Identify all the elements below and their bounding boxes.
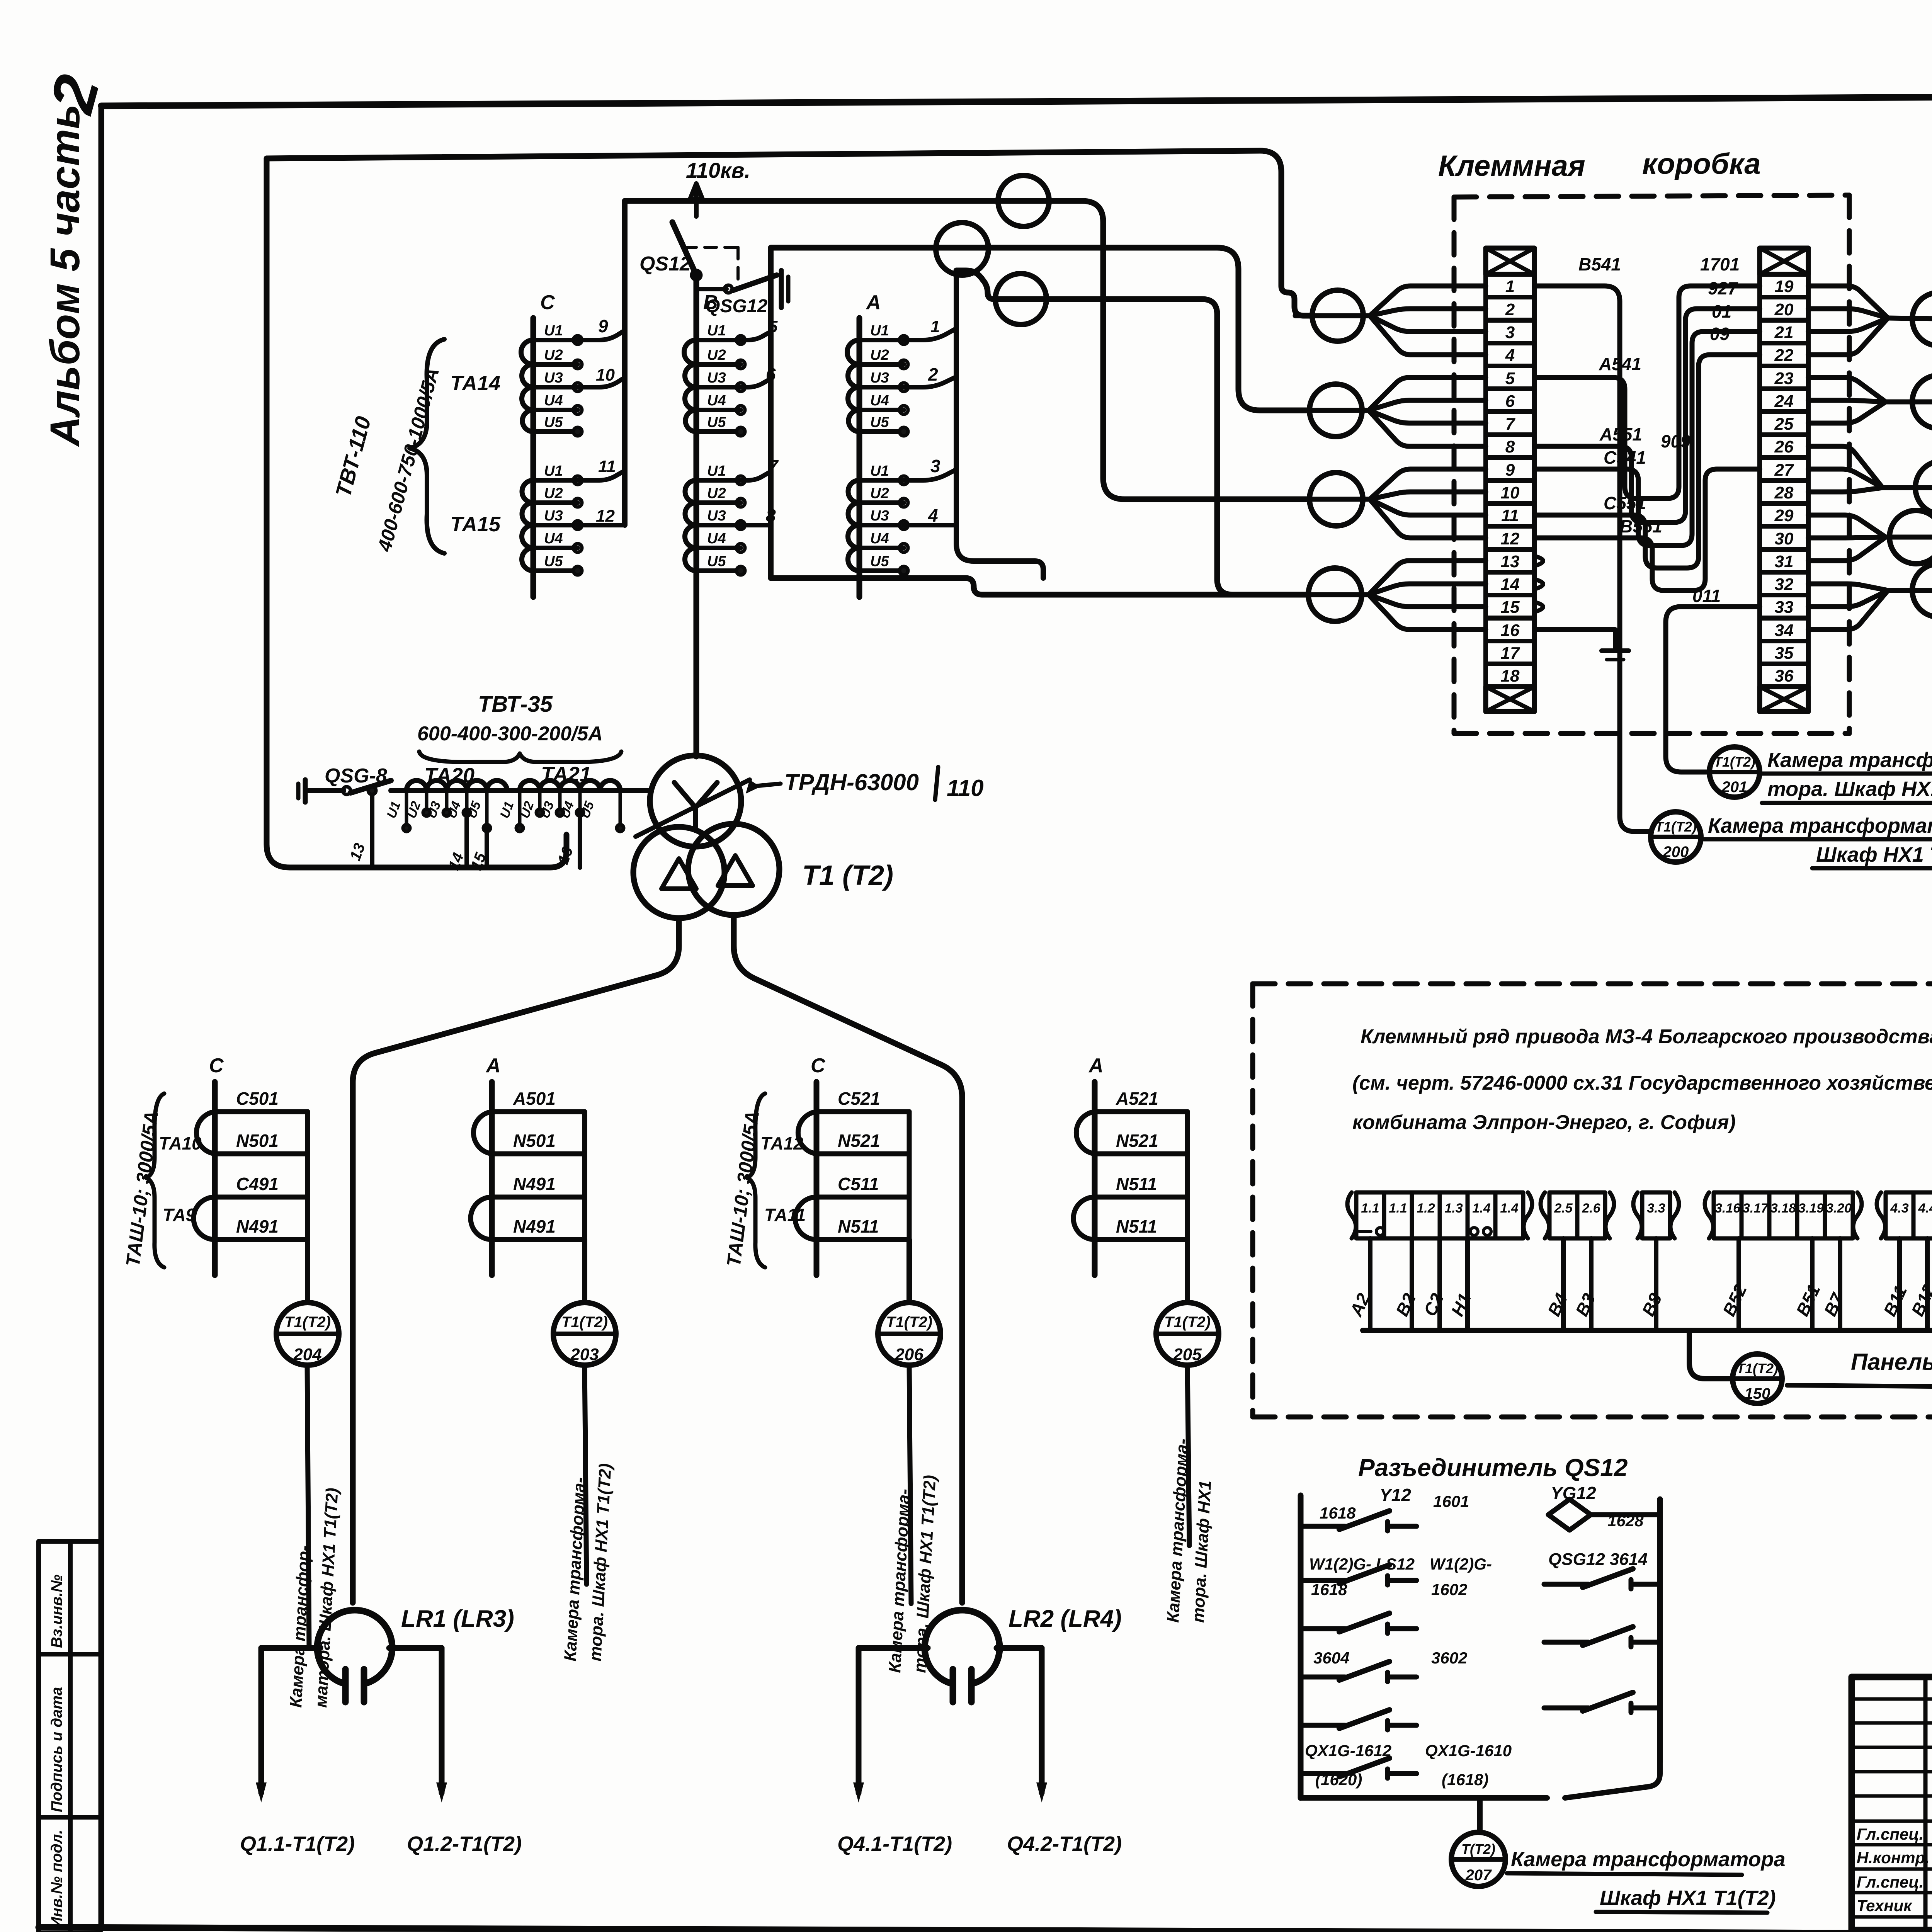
col top — [39, 1539, 101, 1544]
terminal 26 of right strip — [1760, 435, 1808, 457]
svg-text:2: 2 — [1505, 300, 1515, 319]
winding wire U2 of TA18-19A0 — [859, 362, 904, 367]
terminal 7 of left strip — [1486, 412, 1534, 435]
winding arcs TA18-19A0 — [847, 340, 859, 432]
wire collector C — [622, 201, 628, 525]
svg-text:ТРДН-63000: ТРДН-63000 — [784, 769, 919, 795]
terminal 9 of left strip — [1486, 457, 1534, 480]
svg-text:011: 011 — [1692, 586, 1721, 606]
110kV line arrow — [690, 184, 702, 216]
winding arcs TA10-9 — [194, 1112, 215, 1240]
svg-text:C: C — [540, 291, 555, 314]
svg-text:6: 6 — [1505, 392, 1515, 411]
svg-text:110кв.: 110кв. — [686, 158, 750, 182]
svg-text:(1620): (1620) — [1315, 1770, 1362, 1789]
svg-text:N521: N521 — [1116, 1131, 1158, 1151]
svg-text:8: 8 — [1505, 437, 1515, 456]
svg-text:U3: U3 — [544, 508, 563, 524]
cable circle 204 — [305, 1240, 310, 1302]
cable marker B — [936, 223, 988, 275]
terminal 30 of right strip — [1760, 526, 1808, 549]
contact QS12 aux row1 — [1301, 1524, 1345, 1529]
svg-text:1701: 1701 — [1700, 254, 1740, 274]
svg-text:U3: U3 — [870, 508, 889, 524]
wire 12 to collector — [578, 523, 625, 527]
svg-text:14: 14 — [1501, 575, 1520, 594]
svg-text:927: 927 — [1708, 278, 1738, 298]
svg-text:Y12: Y12 — [1379, 1485, 1411, 1505]
dashed box right — [1847, 195, 1852, 733]
CT group TA-A2 phase A — [1092, 1082, 1098, 1275]
drop wire В51 — [1810, 1238, 1815, 1330]
drop wire Н1 — [1465, 1238, 1470, 1330]
winding wire U3 of TA18-19A0 — [859, 385, 904, 389]
svg-text:тора. Шкаф НХ1 Т1(Т2): тора. Шкаф НХ1 Т1(Т2) — [1767, 777, 1932, 801]
contact QSG12 aux 4420 — [1544, 1706, 1588, 1711]
drop wire В4 — [1561, 1238, 1566, 1330]
right terminal line TA-A2 — [1185, 1112, 1190, 1240]
border frame top — [101, 94, 1932, 106]
drop wire А2 — [1368, 1238, 1372, 1330]
svg-text:U5: U5 — [870, 553, 889, 570]
CT group TA-A1 phase A — [489, 1082, 495, 1275]
winding arcs TA12-11 — [795, 1112, 816, 1240]
cable circle 205 — [1185, 1240, 1190, 1302]
cable transit circle P1 — [1912, 293, 1932, 346]
svg-text:1602: 1602 — [1431, 1580, 1467, 1599]
svg-text:Т1(Т2): Т1(Т2) — [284, 1314, 331, 1331]
wire 4 to collector — [904, 523, 956, 527]
svg-text:QX1G-1612: QX1G-1612 — [1305, 1742, 1391, 1760]
cable transit circle P5 — [1912, 564, 1932, 617]
svg-text:2: 2 — [928, 364, 938, 384]
svg-text:А521: А521 — [1116, 1088, 1158, 1109]
drop wire В52 — [1736, 1238, 1741, 1330]
svg-text:Т1(Т2): Т1(Т2) — [886, 1314, 932, 1331]
svg-text:Гл.спец.: Гл.спец. — [1857, 1873, 1923, 1891]
winding wire U4 of TA18-19A0 — [859, 408, 904, 412]
svg-text:N491: N491 — [513, 1174, 556, 1194]
svg-text:Т1(Т2): Т1(Т2) — [1655, 819, 1697, 835]
winding wire U1 of TA18-19A0 — [859, 338, 904, 342]
terminal strip right strip — [1760, 248, 1808, 274]
svg-text:N511: N511 — [1116, 1174, 1157, 1194]
fan wires P1 — [1808, 286, 1888, 318]
terminal 20 of right strip — [1760, 297, 1808, 320]
svg-text:Вз.инв.№: Вз.инв.№ — [48, 1575, 65, 1648]
wire collector B — [768, 248, 774, 525]
bulg box left — [1250, 984, 1255, 1417]
wire jumper B551-909 — [1534, 469, 1760, 590]
svg-text:U5: U5 — [870, 414, 889, 430]
contact QS12 aux row2 — [1301, 1578, 1345, 1583]
terminal 34 of right strip — [1760, 618, 1808, 641]
svg-text:В541: В541 — [1578, 254, 1621, 274]
svg-text:10: 10 — [1501, 483, 1520, 502]
col left — [36, 1541, 41, 1932]
circle 201 — [1709, 747, 1760, 797]
link symbols 1.1 1.4 — [1359, 1228, 1384, 1235]
wire 3 to collector — [904, 469, 956, 480]
terminal 33 of right strip — [1760, 595, 1808, 618]
wire collector A — [954, 270, 959, 525]
wire qs12 bottom — [1301, 1795, 1547, 1801]
svg-text:Т1(Т2): Т1(Т2) — [561, 1314, 608, 1331]
cable transit circle K4 — [1308, 568, 1362, 621]
svg-text:(см. черт. 57246-0000 сх.31 Г: (см. черт. 57246-0000 сх.31 Государствен… — [1352, 1072, 1932, 1094]
dashed box top — [1454, 195, 1849, 197]
windings TA20 TA21 arcs — [406, 781, 620, 791]
svg-text:34: 34 — [1775, 621, 1794, 640]
svg-text:U2: U2 — [870, 485, 889, 502]
terminal row bus — [1363, 1328, 1932, 1333]
svg-text:С551: С551 — [1604, 493, 1646, 513]
svg-text:16: 16 — [1501, 621, 1520, 640]
fan wires K2 — [1369, 378, 1486, 410]
reactor LR2 — [925, 1610, 1000, 1684]
contact QS12 aux row5 — [1301, 1723, 1345, 1728]
wire wire C group run — [625, 201, 1309, 499]
cable transit circle K2 — [1310, 384, 1362, 437]
svg-text:A: A — [866, 291, 881, 314]
wire LV2 lead — [734, 915, 962, 1603]
contact QS12 aux row6 — [1301, 1771, 1345, 1776]
QS12 link dash h — [685, 246, 738, 249]
svg-text:U1: U1 — [544, 463, 563, 479]
wire LV1 lead — [353, 918, 679, 1603]
svg-text:35: 35 — [1775, 644, 1794, 663]
wire 7 to collector — [741, 471, 771, 480]
terminal 3 of left strip — [1486, 320, 1534, 343]
svg-text:7: 7 — [1505, 415, 1516, 434]
terminal 22 of right strip — [1760, 343, 1808, 366]
winding wire А521 — [1095, 1109, 1187, 1114]
svg-text:U4: U4 — [544, 531, 563, 547]
fan wires K3 — [1370, 469, 1486, 499]
terminal 13 of left strip — [1486, 549, 1534, 572]
wire QSG12 lead — [696, 287, 726, 291]
svg-text:1628: 1628 — [1607, 1512, 1644, 1530]
wire wire lower run to C4 — [771, 578, 1308, 595]
svg-text:U4: U4 — [870, 531, 889, 547]
svg-text:23: 23 — [1774, 369, 1794, 388]
wire return wire left — [267, 158, 566, 867]
svg-text:U5: U5 — [707, 553, 726, 570]
svg-text:27: 27 — [1774, 461, 1794, 480]
cable transit circle P2 — [1912, 375, 1932, 429]
bulg box bottom full — [1253, 1415, 1932, 1420]
terminal group G1 — [1347, 1192, 1356, 1238]
ground symbol at terminal 16 — [1534, 629, 1615, 651]
svg-text:36: 36 — [1775, 667, 1794, 685]
terminal 24 of right strip — [1760, 389, 1808, 412]
svg-text:U3: U3 — [707, 370, 726, 386]
wire B phase main upper — [694, 275, 699, 318]
drop wire В8 — [1654, 1238, 1658, 1330]
cable marker A — [998, 175, 1049, 226]
terminal 25 of right strip — [1760, 412, 1808, 435]
svg-text:ТА10: ТА10 — [159, 1133, 202, 1153]
svg-text:Клеммный ряд привода МЗ-4 Бо: Клеммный ряд привода МЗ-4 Болгарского пр… — [1361, 1026, 1932, 1048]
contact QS12 aux row4 — [1301, 1675, 1345, 1680]
svg-text:Шкаф НХ1 Т1(Т2): Шкаф НХ1 Т1(Т2) — [1600, 1886, 1776, 1910]
svg-text:Инв.№ подл.: Инв.№ подл. — [48, 1830, 65, 1928]
wire collector A lower — [956, 525, 1043, 578]
fan wires K1 — [1370, 286, 1486, 316]
svg-text:QS12: QS12 — [639, 253, 691, 275]
terminal 28 of right strip — [1760, 481, 1808, 503]
circle 200 — [1651, 812, 1701, 862]
svg-text:19: 19 — [1775, 277, 1794, 296]
wire wire to panel P14 — [1689, 1330, 1732, 1379]
svg-text:25: 25 — [1774, 415, 1794, 434]
wire 10 to collector — [578, 378, 625, 387]
wire B phase main lower — [694, 597, 699, 757]
svg-text:13: 13 — [1501, 552, 1520, 571]
svg-text:21: 21 — [1774, 323, 1794, 342]
svg-text:Камера трансформатора: Камера трансформатора — [1708, 814, 1932, 837]
col mid — [68, 1541, 73, 1932]
wire wire A group run — [956, 270, 1308, 595]
svg-text:Т1 (Т2): Т1 (Т2) — [802, 860, 893, 891]
wire collector B lower — [768, 525, 774, 578]
svg-text:A: A — [1088, 1054, 1104, 1077]
CT group TA10-9 phase C — [212, 1082, 218, 1275]
circle 150 — [1733, 1354, 1782, 1403]
svg-text:U5: U5 — [544, 553, 563, 570]
svg-text:30: 30 — [1775, 529, 1794, 548]
right terminal line TA12-11 — [907, 1112, 912, 1240]
svg-text:22: 22 — [1774, 346, 1794, 365]
svg-text:4.4: 4.4 — [1918, 1201, 1932, 1216]
svg-text:3602: 3602 — [1431, 1649, 1467, 1667]
svg-text:С541: С541 — [1604, 447, 1646, 468]
svg-text:1.4: 1.4 — [1500, 1201, 1518, 1216]
wire jumper C541-01 — [1534, 332, 1760, 546]
winding wire U5 of TA18-19A1 — [859, 568, 904, 573]
contact QSG12 aux 4250 — [1544, 1640, 1588, 1645]
svg-text:15: 15 — [1501, 598, 1520, 617]
winding wire U2 of TA14-15C1 — [533, 500, 578, 505]
svg-text:3: 3 — [1505, 323, 1515, 342]
svg-text:4: 4 — [1505, 346, 1515, 365]
brace TVT-35 — [419, 752, 621, 762]
svg-text:С511: С511 — [838, 1174, 879, 1194]
stub terminal 13 — [1534, 556, 1543, 566]
svg-text:600-400-300-200/5А: 600-400-300-200/5А — [417, 723, 603, 745]
col div2 — [39, 1815, 101, 1820]
CT group TA14-15C phase C bus — [531, 318, 536, 597]
svg-text:4: 4 — [928, 505, 938, 526]
svg-text:1.2: 1.2 — [1417, 1201, 1435, 1216]
terminal 6 of left strip — [1486, 389, 1534, 412]
winding wire U5 of TA14-15C0 — [533, 429, 578, 434]
svg-text:09: 09 — [1710, 324, 1730, 344]
svg-text:207: 207 — [1465, 1867, 1492, 1884]
tap connection verticals to return wire — [370, 791, 374, 867]
winding wire U1 of TA16-17B1 — [696, 478, 741, 483]
svg-text:Клеммная: Клеммная — [1438, 150, 1585, 182]
terminal 4 of left strip — [1486, 343, 1534, 366]
wire jumper A541-1701 — [1534, 286, 1760, 498]
svg-text:ТА9: ТА9 — [163, 1205, 196, 1225]
svg-text:29: 29 — [1774, 506, 1794, 525]
svg-text:U2: U2 — [707, 347, 726, 363]
taps of TA20/TA21 — [405, 791, 408, 829]
svg-text:U5: U5 — [544, 414, 563, 430]
svg-text:3.18: 3.18 — [1770, 1201, 1796, 1216]
svg-text:Камера трансформа-: Камера трансформа- — [1767, 748, 1932, 772]
svg-text:2.5: 2.5 — [1554, 1201, 1573, 1216]
svg-text:С521: С521 — [838, 1088, 880, 1109]
terminal 19 of right strip — [1760, 274, 1808, 297]
brace TBT-110 — [410, 339, 444, 553]
T1 LV2 circle — [688, 824, 779, 915]
fan wires P3 — [1808, 446, 1883, 488]
svg-text:1618: 1618 — [1311, 1580, 1347, 1599]
winding wire А501 — [492, 1109, 585, 1114]
svg-text:U1: U1 — [707, 323, 726, 339]
cable transit circle K1 — [1312, 290, 1363, 341]
svg-text:Q1.1-Т1(Т2): Q1.1-Т1(Т2) — [240, 1832, 355, 1855]
svg-text:Т1(Т2): Т1(Т2) — [1714, 754, 1755, 770]
svg-text:26: 26 — [1774, 437, 1794, 456]
svg-text:20: 20 — [1774, 300, 1794, 319]
wire wire top loop — [267, 151, 1313, 316]
winding wire U4 of TA18-19A1 — [859, 546, 904, 550]
winding arcs TA-A1 — [471, 1112, 492, 1240]
CT group TA12-11 phase C — [814, 1082, 820, 1275]
svg-text:коробка: коробка — [1642, 148, 1761, 180]
winding wire U4 of TA14-15C1 — [533, 546, 578, 550]
svg-text:QX1G-1610: QX1G-1610 — [1425, 1742, 1512, 1760]
terminal 8 of left strip — [1486, 435, 1534, 457]
terminal 14 of left strip — [1486, 572, 1534, 595]
winding wire U3 of TA14-15C0 — [533, 385, 578, 389]
diamond contact YG12 — [1548, 1499, 1591, 1530]
svg-text:Гл.спец.: Гл.спец. — [1857, 1825, 1923, 1843]
svg-text:С491: С491 — [236, 1174, 279, 1194]
col bottom — [39, 1931, 101, 1932]
fan wires K4 — [1369, 561, 1486, 595]
svg-text:комбината Элпрон-Энерго, г.: комбината Элпрон-Энерго, г. София) — [1352, 1111, 1736, 1134]
terminal 35 of right strip — [1760, 641, 1808, 664]
winding wire N491 — [215, 1237, 308, 1242]
svg-text:5: 5 — [1505, 369, 1515, 388]
winding wire С501 — [215, 1109, 308, 1114]
terminal 16 of left strip — [1486, 618, 1534, 641]
winding wire С511 — [816, 1195, 909, 1200]
winding wire U2 of TA18-19A1 — [859, 500, 904, 505]
drop wire В2 — [1410, 1238, 1414, 1330]
svg-text:N501: N501 — [513, 1131, 556, 1151]
bulg box top — [1253, 981, 1932, 986]
svg-text:3.19: 3.19 — [1798, 1201, 1824, 1216]
svg-text:LR1 (LR3): LR1 (LR3) — [401, 1605, 514, 1632]
winding wire U2 of TA16-17B0 — [696, 362, 741, 367]
svg-text:12: 12 — [1501, 529, 1520, 548]
winding wire U4 of TA16-17B0 — [696, 408, 741, 412]
svg-text:N491: N491 — [236, 1216, 279, 1236]
winding wire U3 of TA16-17B1 — [696, 523, 741, 527]
svg-text:U1: U1 — [544, 323, 563, 339]
winding wire U5 of TA18-19A0 — [859, 429, 904, 434]
brace right TASH — [747, 1094, 765, 1267]
svg-text:205: 205 — [1173, 1345, 1202, 1364]
svg-text:ТА11: ТА11 — [764, 1205, 806, 1225]
svg-text:28: 28 — [1774, 483, 1794, 502]
svg-text:11: 11 — [598, 457, 616, 476]
terminal 1 of left strip — [1486, 274, 1534, 297]
svg-text:W1(2)G-: W1(2)G- — [1430, 1555, 1492, 1573]
svg-text:24: 24 — [1774, 392, 1794, 411]
wire 5 to collector — [741, 332, 771, 340]
signature grid — [1923, 1677, 1928, 1930]
fan wires P2 — [1808, 378, 1886, 402]
svg-text:10: 10 — [596, 366, 615, 384]
svg-text:3604: 3604 — [1313, 1649, 1349, 1667]
col div1 — [39, 1652, 101, 1656]
winding wire U3 of TA14-15C1 — [533, 523, 578, 527]
svg-text:В551: В551 — [1620, 516, 1662, 536]
winding wire U1 of TA18-19A1 — [859, 478, 904, 483]
wire 9 to collector — [578, 330, 625, 340]
svg-text:Q4.2-Т1(Т2): Q4.2-Т1(Т2) — [1007, 1832, 1122, 1855]
svg-text:1601: 1601 — [1433, 1492, 1469, 1510]
winding wire N521 — [816, 1151, 909, 1156]
svg-text:2.6: 2.6 — [1582, 1201, 1600, 1216]
svg-text:17: 17 — [1501, 644, 1520, 663]
winding wire С491 — [215, 1195, 308, 1200]
dashed box bottom — [1454, 731, 1849, 736]
svg-text:9: 9 — [598, 316, 608, 336]
svg-text:(1618): (1618) — [1442, 1770, 1488, 1789]
wire 2 to collector — [904, 377, 956, 387]
right terminal line TA-A1 — [582, 1112, 587, 1240]
wire 11 to collector — [578, 471, 625, 480]
svg-text:3.20: 3.20 — [1826, 1201, 1852, 1216]
winding wire U5 of TA16-17B1 — [696, 568, 741, 573]
ТВТ-35 primary line with windings TA20 TA21 — [391, 788, 650, 793]
wire right col bottom — [1565, 1762, 1660, 1798]
winding arcs TA16-17B1 — [685, 480, 697, 571]
svg-text:N511: N511 — [838, 1216, 879, 1236]
svg-text:1618: 1618 — [1320, 1504, 1356, 1522]
wire 8 to collector — [741, 523, 771, 527]
border frame bottom — [39, 1927, 1932, 1932]
svg-text:32: 32 — [1775, 575, 1794, 594]
svg-text:U1: U1 — [870, 323, 889, 339]
cable transit circle K3 — [1310, 473, 1363, 526]
svg-text:3.17: 3.17 — [1743, 1201, 1769, 1216]
QS12 link dash v — [736, 247, 740, 289]
svg-text:U5: U5 — [707, 414, 726, 430]
svg-text:1.1: 1.1 — [1361, 1201, 1379, 1216]
winding wire U4 of TA14-15C0 — [533, 408, 578, 412]
svg-text:Q1.2-Т1(Т2): Q1.2-Т1(Т2) — [407, 1832, 522, 1855]
svg-text:ТА12: ТА12 — [760, 1133, 803, 1153]
svg-text:W1(2)G- LS12: W1(2)G- LS12 — [1309, 1555, 1415, 1573]
stub terminal 15 — [1534, 602, 1543, 612]
winding wire N501 — [215, 1151, 308, 1156]
svg-text:N501: N501 — [236, 1131, 279, 1151]
svg-text:Т1(Т2): Т1(Т2) — [1736, 1361, 1778, 1376]
winding wire N521 — [1095, 1151, 1187, 1156]
svg-text:N511: N511 — [1116, 1216, 1157, 1236]
terminal 36 of right strip — [1760, 664, 1808, 687]
winding arcs TA16-17B0 — [684, 340, 696, 432]
svg-text:4.3: 4.3 — [1890, 1201, 1908, 1216]
